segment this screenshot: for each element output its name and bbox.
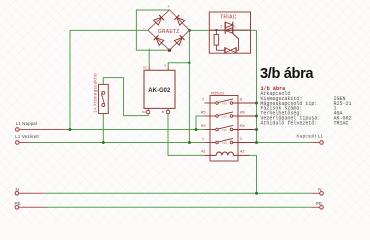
- svg-text:1: 1: [202, 137, 204, 141]
- AK-G02 pin bottom-left with pad: [147, 108, 149, 110]
- circuit breaker S1 1A kismegszakito: [99, 84, 109, 113]
- svg-text:NO: NO: [223, 128, 228, 132]
- TRIAC module A1: [209, 12, 250, 53]
- junction dot relay pin R4: [255, 128, 258, 131]
- junction dot relay pin R6: [255, 115, 258, 118]
- junction dot relay pin 2 / Kapcsolt L1: [255, 141, 258, 144]
- wire bridge AC2 right vertex to TRIAC block: [189, 29, 256, 31]
- wire TRIAC output vertical down relay right pins: [256, 30, 258, 142]
- junction dot bridge bottom vertex: [168, 49, 171, 52]
- relay contact row R5-R6: [205, 112, 257, 117]
- wire resistor to diac: [216, 49, 225, 51]
- svg-text:AK-G02: AK-G02: [148, 88, 171, 94]
- AK-G02 pin top-right: [167, 67, 169, 71]
- wire L1 Vezérelt red stub from terminal: [19, 142, 29, 144]
- wire L1 Nappal red stub from terminal: [19, 129, 70, 131]
- svg-text:R6: R6: [240, 110, 245, 114]
- wire L1 Nappal branch up to relay pin R5: [196, 116, 205, 130]
- diode D4 bottom-right: [174, 35, 184, 45]
- svg-text:2: 2: [220, 25, 222, 29]
- junction dot breaker to L1 Vezérelt: [102, 141, 105, 144]
- relay K1 R25-21: [210, 96, 238, 162]
- triac T1 symbol: [225, 22, 238, 51]
- svg-text:N: N: [16, 187, 19, 192]
- svg-text:1A kismegszakító: 1A kismegszakító: [93, 73, 98, 113]
- svg-text:N: N: [318, 187, 321, 192]
- svg-text:NO: NO: [223, 114, 228, 118]
- svg-text:B: B: [162, 110, 164, 114]
- junction dot bridge right vertex: [188, 29, 191, 32]
- wire loop bridge top vertex to bottom vertex: [136, 10, 169, 50]
- svg-text:TRIAC: TRIAC: [334, 120, 349, 126]
- terminal N left: [15, 192, 19, 196]
- svg-text:R25-21: R25-21: [211, 91, 225, 96]
- svg-text:A1: A1: [201, 150, 205, 154]
- breaker switch blade: [102, 93, 105, 104]
- junction dot L1 Nappal R5 branch: [195, 128, 198, 131]
- svg-text:PE: PE: [316, 201, 322, 206]
- wire AK-G02 top left pin up to bridge loop: [148, 49, 150, 67]
- wire riser down to L1 Vezérelt bus: [188, 63, 190, 143]
- svg-text:7: 7: [202, 97, 204, 101]
- wire relay coil A2 to N rail: [249, 155, 257, 193]
- svg-text:~: ~: [187, 25, 189, 29]
- wire breaker top to AK-G02 bottom left pin: [103, 78, 148, 116]
- breaker contact circles: [102, 91, 105, 94]
- wire breaker bottom to L1 Vezérelt bus: [102, 114, 104, 143]
- diode D3 bottom-left: [154, 35, 164, 45]
- terminal L1 Vezérelt: [15, 141, 19, 145]
- wire N rail red stub left: [19, 192, 44, 194]
- TRIAC internal wire MT1-MT2: [209, 29, 250, 31]
- wire AK-G02 bottom right pin to relay coil A1: [168, 113, 205, 155]
- wire bridge right vertex down: [188, 30, 190, 62]
- diode D2 top-right: [174, 15, 184, 25]
- svg-text:PE: PE: [15, 201, 21, 206]
- diode D1 top-left: [154, 15, 164, 25]
- triac gate line: [233, 34, 239, 51]
- rectifier bridge B1 GRAETZ: [148, 10, 189, 50]
- svg-text:A2: A2: [240, 150, 244, 154]
- svg-text:R4: R4: [240, 124, 245, 128]
- svg-text:+: +: [168, 5, 170, 9]
- svg-text:NO: NO: [223, 101, 228, 105]
- relay contact row 7-8: [205, 99, 257, 104]
- diac D5 symbol: [225, 47, 236, 53]
- wire Kapcsolt L1 red stub to terminal: [311, 142, 320, 144]
- terminal Kapcsolt L1 right: [320, 141, 324, 145]
- svg-text:3/b ábra: 3/b ábra: [260, 66, 314, 82]
- svg-text:R5: R5: [201, 110, 206, 114]
- relay coil A1-A2: [205, 152, 250, 155]
- wire N rail red stub right: [311, 192, 319, 194]
- svg-text:D1: D1: [142, 110, 146, 114]
- AK-G02 pin bottom-right with pad: [167, 108, 169, 110]
- wire vertical from L1 Nappal bus up to bridge AC1: [70, 30, 148, 129]
- wire L1 Vezérelt bus green to relay pin 1: [29, 142, 205, 144]
- junction dot relay pin 8: [255, 102, 258, 105]
- svg-text:Kapcsolt L1: Kapcsolt L1: [297, 133, 324, 138]
- svg-text:NO: NO: [223, 141, 228, 145]
- relay contact row 1-2: [205, 138, 257, 143]
- wire L1 Nappal bus green to relay pin R3: [70, 129, 205, 131]
- control unit U1 AK-G02: [144, 70, 175, 108]
- wire branch to AK-G02 top right pin: [168, 63, 189, 67]
- wire N rail green: [44, 192, 312, 194]
- svg-text:~: ~: [143, 27, 145, 31]
- svg-text:L1 Vezérelt: L1 Vezérelt: [15, 134, 39, 139]
- wire diac to gate riser: [236, 49, 239, 51]
- svg-text:L1 Nappal: L1 Nappal: [16, 121, 37, 126]
- svg-text:Áthidaló félvezető:: Áthidaló félvezető:: [260, 119, 317, 126]
- relay contact row R3-R4: [205, 125, 257, 130]
- junction dot branch to AK-G02: [188, 62, 190, 64]
- svg-text:D2: D2: [143, 66, 147, 70]
- wire PE rail green: [47, 206, 311, 208]
- wire Kapcsolt L1 green: [257, 142, 311, 144]
- svg-text:-: -: [171, 47, 172, 51]
- svg-text:TRIAC: TRIAC: [220, 15, 237, 21]
- junction dot L1 Nappal at x70: [69, 128, 72, 131]
- svg-text:GRAETZ: GRAETZ: [158, 29, 180, 35]
- wire PE rail red stub left: [19, 206, 47, 208]
- terminal L1 Nappal: [15, 128, 19, 132]
- terminal N right: [320, 192, 324, 196]
- terminal PE left: [15, 206, 19, 210]
- svg-text:1: 1: [234, 25, 236, 29]
- junction dot A2 riser on N rail: [255, 192, 258, 195]
- wire PE rail red stub right: [311, 206, 319, 208]
- svg-text:8: 8: [240, 97, 242, 101]
- svg-text:R3: R3: [201, 124, 206, 128]
- AK-G02 pin top-left: [148, 67, 150, 71]
- terminal PE right: [320, 206, 324, 210]
- svg-text:2: 2: [240, 137, 242, 141]
- resistor R1 in TRIAC module: [214, 35, 219, 46]
- svg-text:A: A: [164, 63, 166, 67]
- junction dot riser to L1 Vezérelt: [188, 141, 191, 144]
